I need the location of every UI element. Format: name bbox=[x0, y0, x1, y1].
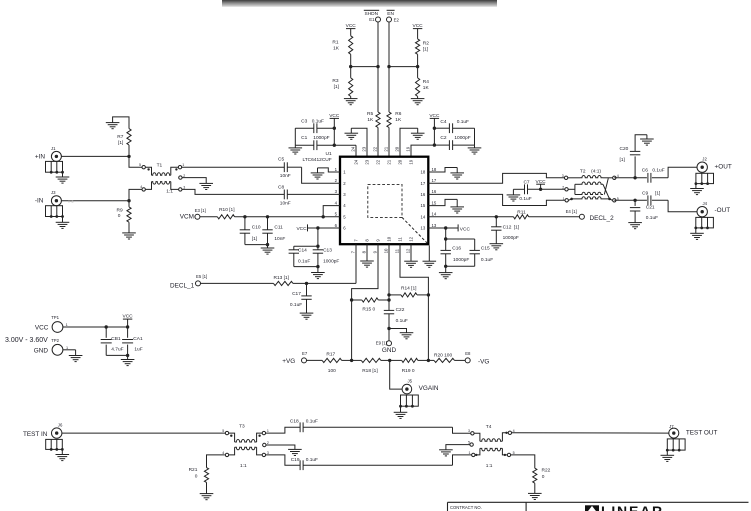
svg-text:10nF: 10nF bbox=[280, 173, 291, 179]
svg-text:+IN: +IN bbox=[35, 153, 46, 160]
svg-text:R2: R2 bbox=[423, 41, 429, 47]
svg-text:1000pF: 1000pF bbox=[503, 235, 519, 241]
svg-text:R18 [1]: R18 [1] bbox=[362, 368, 377, 374]
svg-text:1:1: 1:1 bbox=[486, 463, 493, 469]
svg-text:CB1: CB1 bbox=[111, 336, 121, 342]
svg-text:18: 18 bbox=[421, 170, 426, 175]
svg-text:C6: C6 bbox=[642, 168, 648, 174]
svg-text:[1]: [1] bbox=[655, 191, 660, 197]
svg-text:-VG: -VG bbox=[478, 359, 489, 366]
svg-text:100: 100 bbox=[328, 368, 336, 374]
svg-text:EN: EN bbox=[387, 11, 394, 17]
svg-text:R22: R22 bbox=[542, 468, 551, 474]
svg-text:C7: C7 bbox=[523, 179, 529, 185]
svg-text:DECL_1: DECL_1 bbox=[170, 282, 195, 289]
svg-text:19: 19 bbox=[406, 146, 411, 151]
svg-text:0.1uF: 0.1uF bbox=[306, 457, 318, 463]
svg-text:23: 23 bbox=[365, 159, 370, 164]
svg-text:1000pF: 1000pF bbox=[323, 259, 339, 265]
svg-text:[1]: [1] bbox=[620, 157, 625, 163]
svg-text:VCC: VCC bbox=[460, 226, 471, 232]
svg-text:10: 10 bbox=[387, 236, 392, 241]
svg-text:C13: C13 bbox=[323, 248, 332, 254]
svg-text:[1]: [1] bbox=[514, 225, 519, 231]
svg-text:[1]: [1] bbox=[118, 140, 123, 146]
svg-text:SHDN: SHDN bbox=[365, 11, 379, 17]
svg-text:0: 0 bbox=[195, 474, 198, 480]
svg-text:17: 17 bbox=[432, 178, 437, 183]
svg-text:[1]: [1] bbox=[423, 46, 428, 52]
svg-text:3: 3 bbox=[468, 429, 470, 433]
svg-text:E2: E2 bbox=[394, 18, 400, 23]
svg-text:C22: C22 bbox=[396, 307, 405, 313]
svg-text:23: 23 bbox=[362, 146, 367, 151]
svg-text:19: 19 bbox=[409, 159, 414, 164]
svg-text:C12: C12 bbox=[503, 225, 512, 231]
svg-text:J3: J3 bbox=[51, 190, 56, 195]
svg-text:VCM: VCM bbox=[180, 213, 194, 220]
svg-text:J4: J4 bbox=[703, 201, 708, 206]
svg-text:0: 0 bbox=[118, 213, 121, 219]
svg-text:045: 045 bbox=[68, 199, 74, 203]
svg-text:2: 2 bbox=[562, 186, 564, 190]
svg-text:R1: R1 bbox=[332, 39, 338, 45]
svg-text:J2: J2 bbox=[702, 156, 707, 161]
svg-text:E4 [1]: E4 [1] bbox=[566, 209, 577, 214]
svg-text:[1]: [1] bbox=[334, 84, 339, 90]
svg-text:5: 5 bbox=[222, 429, 224, 433]
svg-text:R10 [1]: R10 [1] bbox=[219, 207, 234, 213]
svg-text:E8: E8 bbox=[465, 351, 471, 356]
svg-text:14: 14 bbox=[432, 212, 437, 217]
svg-text:10: 10 bbox=[384, 248, 389, 253]
svg-text:20: 20 bbox=[395, 146, 400, 151]
svg-text:CONTRACT NO.: CONTRACT NO. bbox=[450, 505, 482, 510]
svg-text:12: 12 bbox=[409, 236, 414, 241]
svg-text:16: 16 bbox=[432, 189, 437, 194]
svg-text:R5: R5 bbox=[367, 111, 373, 117]
svg-text:VCC: VCC bbox=[296, 226, 307, 232]
svg-text:E9 [1]: E9 [1] bbox=[376, 341, 387, 346]
svg-text:0: 0 bbox=[542, 474, 545, 480]
svg-text:-IN: -IN bbox=[35, 198, 44, 205]
svg-text:+VG: +VG bbox=[282, 358, 295, 365]
svg-text:C11: C11 bbox=[274, 224, 283, 230]
svg-text:C4: C4 bbox=[440, 119, 446, 125]
svg-text:15: 15 bbox=[432, 200, 437, 205]
svg-text:R19 0: R19 0 bbox=[402, 368, 415, 374]
svg-text:C5: C5 bbox=[278, 157, 284, 163]
svg-text:C10: C10 bbox=[252, 224, 261, 230]
svg-text:3: 3 bbox=[562, 174, 564, 178]
svg-text:C14: C14 bbox=[298, 248, 307, 254]
svg-text:10nF: 10nF bbox=[280, 200, 291, 206]
svg-text:C17: C17 bbox=[292, 291, 301, 297]
svg-text:J6: J6 bbox=[58, 423, 63, 428]
svg-text:21: 21 bbox=[384, 146, 389, 151]
svg-text:17: 17 bbox=[421, 181, 426, 186]
svg-text:13: 13 bbox=[421, 226, 426, 231]
svg-text:24: 24 bbox=[354, 159, 359, 164]
svg-text:C2: C2 bbox=[440, 135, 446, 141]
svg-text:CA1: CA1 bbox=[133, 336, 143, 342]
svg-text:R21: R21 bbox=[189, 467, 198, 473]
svg-text:C20: C20 bbox=[620, 146, 629, 152]
svg-text:1:1: 1:1 bbox=[166, 189, 173, 195]
svg-text:C9: C9 bbox=[642, 191, 648, 197]
svg-text:1:1: 1:1 bbox=[240, 463, 247, 469]
svg-text:22: 22 bbox=[376, 159, 381, 164]
svg-text:E1: E1 bbox=[369, 17, 375, 22]
svg-text:C21: C21 bbox=[646, 205, 655, 211]
svg-text:13: 13 bbox=[432, 223, 437, 228]
svg-text:0.1uF: 0.1uF bbox=[396, 318, 408, 324]
svg-text:12: 12 bbox=[406, 248, 411, 253]
svg-text:R3: R3 bbox=[332, 78, 338, 84]
svg-text:R20 100: R20 100 bbox=[434, 353, 452, 359]
svg-text:VGAIN: VGAIN bbox=[419, 385, 439, 392]
svg-text:24: 24 bbox=[351, 146, 356, 151]
svg-text:R4: R4 bbox=[423, 79, 429, 85]
svg-text:1000pF: 1000pF bbox=[454, 135, 470, 141]
svg-text:18: 18 bbox=[432, 167, 437, 172]
svg-text:R13 [1]: R13 [1] bbox=[274, 275, 289, 281]
svg-text:C8: C8 bbox=[278, 185, 284, 191]
svg-text:C1: C1 bbox=[301, 135, 307, 141]
svg-text:R11: R11 bbox=[517, 210, 526, 216]
svg-text:U1: U1 bbox=[326, 151, 332, 157]
svg-text:4.7uF: 4.7uF bbox=[111, 347, 123, 353]
svg-text:1K: 1K bbox=[367, 117, 374, 123]
svg-text:R15 0: R15 0 bbox=[362, 306, 375, 312]
svg-text:0.1uF: 0.1uF bbox=[481, 257, 493, 263]
svg-text:TP2: TP2 bbox=[51, 338, 59, 343]
svg-text:(4:1): (4:1) bbox=[591, 168, 601, 174]
svg-text:10nF: 10nF bbox=[274, 236, 285, 242]
svg-text:GND: GND bbox=[382, 347, 397, 354]
svg-text:3.00V - 3.60V: 3.00V - 3.60V bbox=[5, 337, 48, 344]
svg-text:0.1uF: 0.1uF bbox=[298, 259, 310, 265]
svg-text:LTC6412CUF: LTC6412CUF bbox=[302, 157, 331, 163]
svg-text:T3: T3 bbox=[239, 423, 245, 429]
svg-text:1: 1 bbox=[469, 451, 471, 455]
svg-text:0.1uF: 0.1uF bbox=[646, 215, 658, 221]
svg-text:1K: 1K bbox=[395, 117, 402, 123]
svg-text:11: 11 bbox=[395, 248, 400, 253]
svg-text:0.1uF: 0.1uF bbox=[652, 168, 664, 174]
svg-text:-OUT: -OUT bbox=[715, 207, 731, 214]
svg-text:E7: E7 bbox=[302, 351, 308, 356]
svg-text:1: 1 bbox=[563, 197, 565, 201]
svg-text:1: 1 bbox=[182, 163, 184, 167]
svg-text:20: 20 bbox=[398, 159, 403, 164]
svg-text:+OUT: +OUT bbox=[715, 164, 732, 171]
svg-text:E3 [1]: E3 [1] bbox=[195, 208, 206, 213]
svg-text:22: 22 bbox=[373, 146, 378, 151]
svg-text:TP1: TP1 bbox=[51, 315, 59, 320]
svg-text:TEST IN: TEST IN bbox=[23, 431, 48, 438]
svg-text:C19: C19 bbox=[291, 457, 300, 463]
svg-text:0.1uF: 0.1uF bbox=[519, 196, 531, 202]
svg-text:GND: GND bbox=[34, 348, 49, 355]
svg-text:C15: C15 bbox=[481, 246, 490, 252]
svg-text:4: 4 bbox=[513, 429, 515, 433]
svg-text:0.1uF: 0.1uF bbox=[457, 119, 469, 125]
svg-text:C3: C3 bbox=[301, 118, 307, 124]
svg-text:1uF: 1uF bbox=[134, 347, 142, 353]
svg-text:R17: R17 bbox=[326, 351, 335, 357]
svg-text:[1]: [1] bbox=[252, 236, 257, 242]
svg-text:T1: T1 bbox=[157, 162, 163, 168]
svg-text:11: 11 bbox=[398, 237, 403, 242]
svg-text:0.1uF: 0.1uF bbox=[290, 302, 302, 308]
svg-text:LINEAR: LINEAR bbox=[601, 503, 664, 511]
svg-text:15: 15 bbox=[421, 203, 426, 208]
svg-text:C18: C18 bbox=[290, 419, 299, 425]
svg-text:1000pF: 1000pF bbox=[453, 257, 469, 263]
svg-text:14: 14 bbox=[421, 214, 426, 219]
svg-text:C16: C16 bbox=[452, 246, 461, 252]
svg-text:1K: 1K bbox=[333, 45, 340, 51]
svg-text:0.1uF: 0.1uF bbox=[306, 419, 318, 425]
svg-text:1K: 1K bbox=[423, 85, 430, 91]
svg-text:1000pF: 1000pF bbox=[313, 135, 329, 141]
svg-text:R14 [1]: R14 [1] bbox=[401, 286, 416, 292]
svg-text:DECL_2: DECL_2 bbox=[590, 215, 615, 222]
svg-text:T4: T4 bbox=[486, 424, 492, 430]
svg-text:TEST OUT: TEST OUT bbox=[686, 430, 718, 437]
svg-text:21: 21 bbox=[387, 159, 392, 164]
svg-text:J5: J5 bbox=[408, 378, 413, 383]
svg-text:R6: R6 bbox=[395, 111, 401, 117]
svg-text:16: 16 bbox=[421, 192, 426, 197]
svg-text:0.1uF: 0.1uF bbox=[312, 118, 324, 124]
svg-text:5: 5 bbox=[139, 163, 141, 167]
svg-text:R7: R7 bbox=[117, 134, 123, 140]
svg-text:VCC: VCC bbox=[35, 324, 49, 331]
svg-text:T2: T2 bbox=[580, 168, 586, 174]
svg-text:J1: J1 bbox=[51, 146, 56, 151]
svg-text:R9: R9 bbox=[117, 207, 123, 213]
svg-text:E5 [1]: E5 [1] bbox=[196, 274, 207, 279]
